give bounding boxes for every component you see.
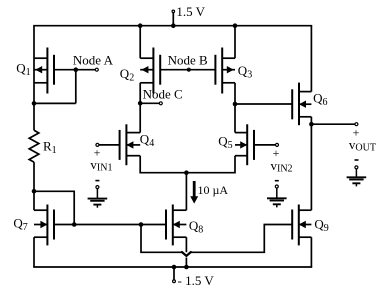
crossover hop	[182, 252, 191, 256]
wire Q6 source to Q9 drain (vout node)	[310, 117, 312, 210]
junction R1 bottom / Q7 drain	[32, 189, 37, 194]
transistor Q3	[215, 48, 235, 94]
wire Q5 source to tail	[186, 156, 235, 173]
node A terminal	[95, 68, 98, 71]
transistor Q1	[34, 48, 54, 94]
svg-text:- 1.5 V: - 1.5 V	[178, 273, 215, 288]
wire left rail Q1 drain to R1	[33, 103, 35, 130]
junction Q3 drain	[233, 102, 238, 107]
vin1 ground terminal	[96, 186, 99, 189]
transistor Q8	[166, 205, 186, 246]
wire vout lead	[311, 123, 354, 125]
junction Q1 drain	[32, 101, 37, 106]
vin2 ground terminal	[275, 185, 278, 188]
wire Q9 source to bottom rail	[310, 237, 312, 267]
-1.5V supply terminal	[173, 280, 176, 283]
wire Q1 gate to Node A terminal	[54, 69, 95, 71]
wire Q3 drain to Q5 drain	[234, 83, 236, 133]
junction tail current node	[184, 170, 189, 175]
wire Q5 gate to vin2 lead	[254, 144, 275, 146]
vout ground terminal	[355, 166, 358, 169]
wire Q7 diode connection	[34, 191, 74, 224]
wire Q1 diode connection horizontal	[34, 102, 76, 104]
wire R1 to Q7 drain	[33, 162, 35, 210]
vin2 terminal	[276, 143, 279, 146]
transistor Q4	[120, 124, 141, 165]
node C terminal	[159, 102, 162, 105]
wire +1.5V top rail	[33, 25, 312, 27]
junction Q3 rail	[233, 23, 238, 28]
resistor R1	[29, 130, 39, 162]
ground under vin2	[267, 188, 287, 207]
node B terminal	[187, 68, 190, 71]
junction vout node	[309, 122, 314, 127]
junction mirror line	[139, 222, 144, 227]
wire node C lead	[140, 102, 159, 104]
svg-text:10 µA: 10 µA	[198, 183, 229, 197]
ground under vin1	[88, 189, 108, 208]
junction +1.5V	[171, 23, 176, 28]
ground under vout	[347, 169, 367, 186]
wire left rail upper (top rail to Q1 drain)	[33, 26, 35, 104]
wire Q7 gate to Q8 gate	[54, 224, 166, 226]
transistor Q5	[235, 124, 254, 165]
wire Q3 source drop from rail	[234, 26, 236, 59]
svg-text:Node B: Node B	[168, 52, 208, 67]
vout terminal	[355, 123, 358, 126]
wire Q3 drain to Q6 gate	[235, 103, 292, 105]
junction node C	[138, 101, 143, 106]
transistor Q2	[140, 48, 160, 94]
+1.5V supply terminal	[172, 10, 175, 13]
transistor Q7	[34, 205, 54, 246]
junction Q8 rail	[184, 265, 189, 270]
wire -1.5V stub	[173, 267, 175, 280]
wire -1.5V bottom rail	[33, 266, 312, 268]
wire +1.5V stub	[172, 13, 174, 26]
junction Q1 gate-drain	[74, 67, 79, 72]
transistor Q6	[292, 83, 311, 126]
label vin1 -	[95, 180, 99, 182]
wire mirror to Q9 gate (with crossover hop)	[141, 225, 182, 253]
junction Q2 rail	[138, 23, 143, 28]
junction -1.5V	[172, 265, 177, 270]
wire vin1 lead to Q4 gate	[99, 144, 120, 146]
label vin2 -	[275, 180, 279, 182]
svg-text:1.5 V: 1.5 V	[176, 4, 205, 19]
wire Q7 source to bottom rail	[33, 237, 35, 267]
transistor Q9	[292, 205, 311, 246]
wire crossover to bottom rail	[185, 258, 187, 268]
wire Q2 source drop from rail	[139, 26, 141, 59]
svg-text:Node C: Node C	[143, 87, 183, 102]
svg-text:Node A: Node A	[73, 53, 114, 68]
wire right rail to Q6 drain	[310, 26, 312, 92]
wire Q1 diode connection down	[75, 70, 77, 104]
wire Q4 source to tail	[140, 156, 186, 173]
wire Q2 gate to Q3 gate	[160, 69, 215, 71]
vin1 terminal	[96, 143, 99, 146]
junction Q7 diode	[72, 222, 77, 227]
wire Q8 source to crossover	[185, 237, 187, 252]
current source 10uA arrow	[190, 181, 198, 204]
wire Q2 drain / node C / Q4 drain	[139, 83, 141, 133]
label vout -	[355, 159, 359, 161]
wire tail to Q8 drain	[185, 173, 187, 211]
